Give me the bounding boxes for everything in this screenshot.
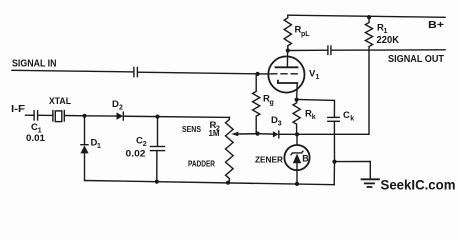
node dot grid junction	[256, 72, 260, 76]
svg-text:D: D	[112, 99, 119, 110]
svg-text:PADDER: PADDER	[188, 159, 215, 169]
wire B+ top rail	[288, 15, 445, 17]
node dot Rg bottom junction	[256, 132, 260, 136]
diode D3	[273, 131, 279, 137]
wire D2 to pot top	[124, 116, 230, 117]
svg-text:SENS: SENS	[182, 124, 201, 134]
wire signal in left	[12, 70, 134, 72]
svg-text:1: 1	[384, 28, 388, 35]
resistor R1	[365, 17, 372, 50]
op-amp V1 tube envelope	[268, 56, 304, 92]
wire V1 cathode lead	[296, 83, 299, 100]
wire ground branch	[335, 161, 371, 178]
resistor Rg	[253, 74, 260, 134]
svg-text:k: k	[350, 116, 354, 123]
wire I-F lead	[26, 114, 34, 116]
svg-text:0.01: 0.01	[26, 133, 45, 143]
ground	[362, 178, 380, 180]
node dot pot bottom	[226, 181, 230, 185]
svg-text:SIGNAL IN: SIGNAL IN	[12, 59, 57, 70]
wire D3 to right corner	[279, 133, 369, 135]
svg-text:1: 1	[97, 143, 101, 150]
potentiometer R2	[226, 117, 234, 182]
svg-text:C: C	[343, 110, 350, 121]
capacitor C1	[33, 111, 35, 120]
capacitor signal-in coupling	[133, 67, 135, 76]
R2 wiper arrow	[238, 133, 258, 135]
svg-text:XTAL: XTAL	[49, 96, 71, 106]
wire wiper node to D3	[258, 133, 273, 135]
wire V1 grid lead	[258, 73, 270, 75]
node dot zener bottom	[295, 182, 299, 186]
wire signal in right to grid	[138, 72, 258, 74]
node dot XTAL junction	[82, 114, 86, 118]
wire zener top lead	[296, 134, 298, 145]
wire zener inner lead	[296, 163, 298, 184]
resistor RpL	[284, 15, 291, 50]
node dot plate junction	[286, 48, 290, 52]
capacitor C2	[157, 117, 159, 147]
zener triangle	[293, 154, 301, 164]
wire cathode to Ck	[297, 100, 335, 118]
wire C1 to XTAL	[38, 114, 53, 116]
svg-text:2: 2	[119, 105, 123, 112]
node dot Rk bottom junction	[295, 132, 299, 136]
V1 plate	[276, 66, 298, 68]
node dot ground branch junction	[332, 160, 336, 164]
zener diode B envelope	[284, 145, 309, 170]
node dot R1 top rail junction	[367, 15, 371, 19]
wire bottom rail	[85, 181, 335, 185]
svg-text:B: B	[302, 153, 309, 163]
node dot cathode junction	[295, 98, 299, 102]
svg-text:SeekIC.com: SeekIC.com	[381, 178, 456, 193]
svg-text:pL: pL	[301, 31, 310, 38]
svg-text:ZENER: ZENER	[255, 155, 283, 165]
svg-text:I-F: I-F	[11, 104, 25, 115]
svg-text:k: k	[312, 114, 316, 121]
V1 cathode	[278, 81, 297, 83]
crystal XTAL	[52, 111, 54, 122]
wire R1 bottom vertical	[368, 50, 370, 134]
wire plate to output line	[288, 49, 328, 51]
svg-text:B+: B+	[428, 20, 444, 31]
svg-text:1M: 1M	[209, 128, 220, 138]
V1 grid (dashed)	[271, 73, 299, 75]
node dot C2 bottom	[155, 180, 159, 184]
wire signal out line	[331, 49, 445, 51]
svg-text:g: g	[270, 100, 274, 107]
wire junction to D2	[85, 115, 117, 117]
svg-text:SIGNAL OUT: SIGNAL OUT	[388, 54, 444, 65]
capacitor coupling (plate to signal out)	[327, 46, 329, 54]
resistor Rk	[293, 100, 300, 135]
capacitor Ck	[328, 116, 340, 118]
svg-text:2: 2	[143, 141, 147, 148]
svg-text:3: 3	[278, 121, 282, 128]
svg-text:0.02: 0.02	[126, 149, 146, 159]
node dot C2 top	[155, 115, 159, 119]
diode D1	[84, 116, 86, 145]
svg-text:220K: 220K	[377, 35, 400, 46]
wire V1 plate lead	[286, 51, 288, 68]
svg-text:1: 1	[316, 74, 320, 81]
wire XTAL to junction	[65, 115, 85, 117]
zener bar	[291, 151, 303, 154]
diode D2	[117, 112, 124, 119]
